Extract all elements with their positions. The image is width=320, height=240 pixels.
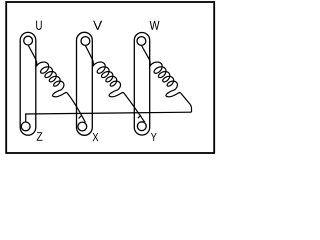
coil L1 (U-X) bbox=[36, 62, 63, 90]
winding slot W-Y outline bbox=[134, 33, 149, 136]
terminal U bbox=[24, 36, 33, 45]
terminal Z bbox=[21, 122, 30, 131]
arrow barb at Y bbox=[138, 115, 141, 118]
label U bbox=[36, 21, 41, 30]
wire: coil L3 tail down to return wire bbox=[166, 90, 192, 112]
coil L3 (W-Z) bbox=[150, 62, 177, 90]
terminal X bbox=[78, 122, 87, 131]
wire: coil L2 tail to terminal Y bbox=[109, 90, 145, 122]
winding slot V-X outline bbox=[77, 32, 93, 135]
lead from terminal U to coil bbox=[28, 45, 37, 66]
wire: coil L1 tail to terminal X bbox=[52, 90, 85, 122]
border frame bbox=[6, 2, 214, 153]
terminal W bbox=[137, 37, 146, 46]
return wire from coil L3 to terminal Z bbox=[26, 112, 192, 122]
label X bbox=[92, 133, 98, 141]
label Z bbox=[37, 132, 43, 141]
terminal V bbox=[81, 37, 90, 46]
arrow barb at X bbox=[79, 116, 82, 119]
label W bbox=[150, 21, 160, 30]
winding slot U-Z outline bbox=[20, 32, 36, 135]
coil L2 (V-Y) bbox=[93, 62, 120, 90]
terminal Y bbox=[137, 122, 146, 131]
lead from terminal W to coil bbox=[142, 46, 151, 67]
label Y bbox=[151, 133, 157, 141]
lead from terminal V to coil bbox=[85, 46, 93, 67]
label V bbox=[93, 21, 102, 30]
